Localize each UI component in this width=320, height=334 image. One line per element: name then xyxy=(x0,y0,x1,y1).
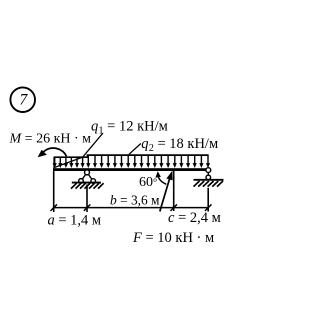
pin support (left, hinged) xyxy=(79,170,96,183)
problem number circle 7 xyxy=(10,87,35,112)
svg-text:q2 = 18 кН/м: q2 = 18 кН/м xyxy=(141,136,218,154)
ground line under pin support xyxy=(72,182,101,184)
force F arrow xyxy=(160,171,173,212)
svg-text:60°: 60° xyxy=(139,175,157,190)
distributed load q1 xyxy=(53,157,88,168)
distributed load q2 xyxy=(86,154,210,168)
svg-text:F = 10 кН · м: F = 10 кН · м xyxy=(132,230,214,246)
svg-text:c = 2,4 м: c = 2,4 м xyxy=(168,210,221,226)
roller link support (right) xyxy=(206,168,211,180)
moment M curved arrow xyxy=(38,148,67,157)
dimension tick at roller support xyxy=(205,204,212,211)
extension line at beam left end xyxy=(53,171,55,212)
dimension line a b c xyxy=(54,207,209,209)
ground line under roller support xyxy=(194,179,224,181)
svg-text:a = 1,4 м: a = 1,4 м xyxy=(48,213,102,229)
ground hatching under pin support xyxy=(71,183,104,188)
dimension tick at beam left end xyxy=(51,204,58,211)
angle arc 60 deg xyxy=(155,171,166,184)
extension line at force point xyxy=(173,171,175,211)
extension line at roller support xyxy=(207,188,209,212)
svg-text:b = 3,6 м: b = 3,6 м xyxy=(110,193,160,208)
leader line q2 xyxy=(129,144,141,155)
svg-text:M = 26 кН · м: M = 26 кН · м xyxy=(9,132,92,147)
ground hatching under roller support xyxy=(194,181,224,187)
dimension tick at force point xyxy=(171,204,178,211)
dimension tick at pin support xyxy=(84,204,91,211)
leader line q1 xyxy=(54,133,103,168)
svg-text:7: 7 xyxy=(20,92,29,109)
extension line at pin support xyxy=(86,185,88,213)
beam xyxy=(53,168,209,171)
